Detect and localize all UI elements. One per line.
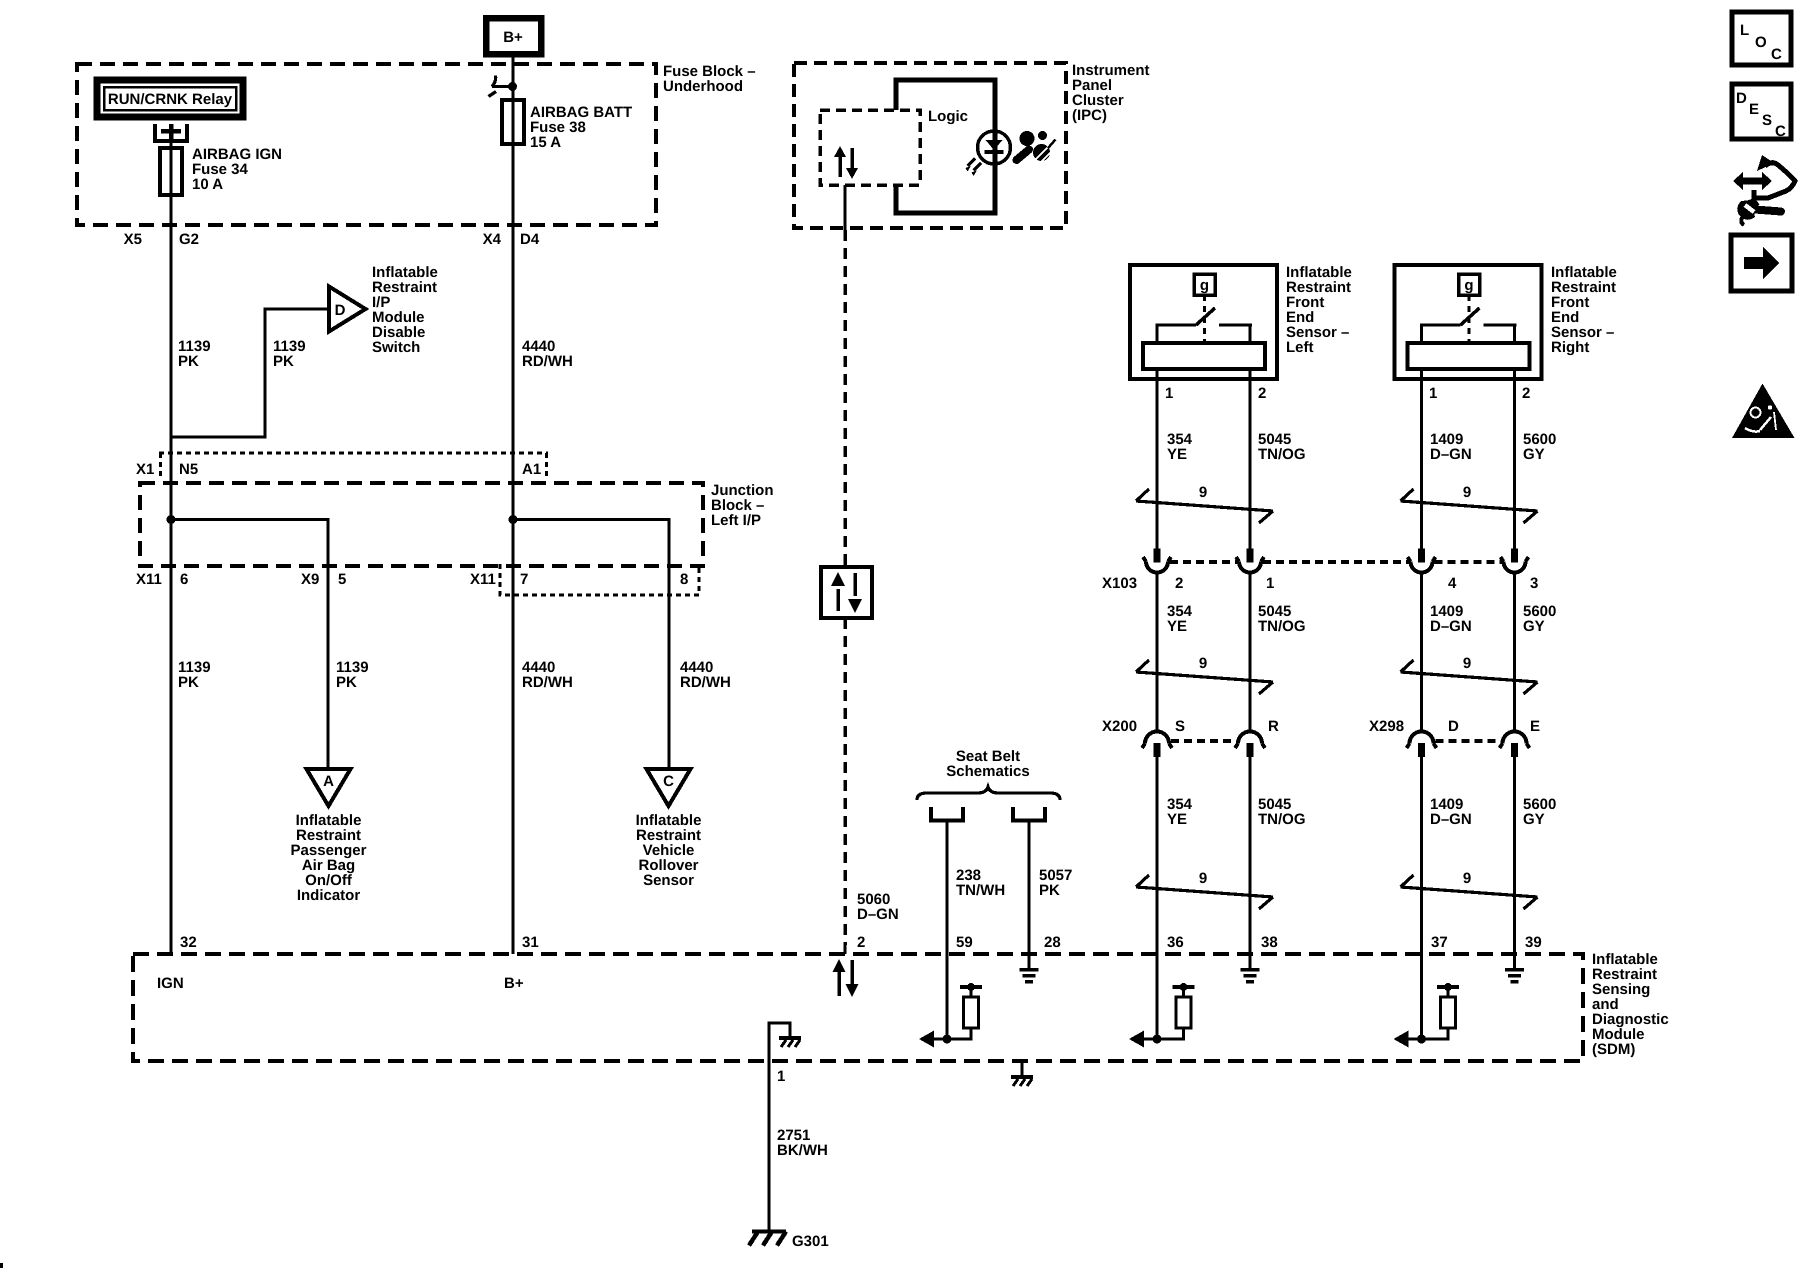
label 354 YE (upper) <box>1167 431 1193 463</box>
wire B+ to fuse 38 <box>511 54 514 144</box>
svg-text:C: C <box>1771 46 1782 63</box>
label 1409 D-GN (middle) <box>1430 603 1472 635</box>
sensor right pin labels <box>1429 385 1530 402</box>
label 1139 PK (trunk) <box>178 338 211 370</box>
svg-text:Switch: Switch <box>372 339 420 356</box>
wire 5600 GY X298 to SDM pin 39 <box>1513 757 1516 954</box>
svg-text:D: D <box>335 302 346 319</box>
label 1139 PK (branch) <box>273 338 306 370</box>
svg-text:X9: X9 <box>301 571 319 588</box>
label 5600 GY (upper) <box>1523 431 1556 463</box>
svg-text:Logic: Logic <box>928 108 968 125</box>
svg-text:TN/WH: TN/WH <box>956 882 1005 899</box>
svg-text:7: 7 <box>520 571 528 588</box>
svg-text:D–GN: D–GN <box>1430 446 1472 463</box>
label 1409 D-GN (upper) <box>1430 431 1472 463</box>
svg-text:2: 2 <box>1175 575 1183 592</box>
connector X5 pin G2 <box>124 231 199 248</box>
svg-text:X11: X11 <box>470 571 496 588</box>
svg-text:6: 6 <box>180 571 188 588</box>
page margin mark <box>0 1263 3 1268</box>
svg-text:9: 9 <box>1199 870 1207 887</box>
label 5045 TN/OG (upper) <box>1258 431 1306 463</box>
label 5045 TN/OG (lower) <box>1258 796 1306 828</box>
svg-text:L: L <box>1740 22 1749 39</box>
svg-text:8: 8 <box>680 571 688 588</box>
serial data in-line box with arrows <box>821 567 872 618</box>
SDM pin 1 label <box>777 1068 785 1085</box>
svg-text:(IPC): (IPC) <box>1072 107 1107 124</box>
svg-text:9: 9 <box>1463 484 1471 501</box>
SDM pin labels top row <box>180 934 1542 951</box>
svg-text:N5: N5 <box>179 461 198 478</box>
svg-text:PK: PK <box>336 674 357 691</box>
svg-text:1: 1 <box>1266 575 1274 592</box>
svg-text:9: 9 <box>1463 655 1471 672</box>
label 1139 PK (pin6 run) <box>178 659 211 691</box>
wire 1139 PK to passenger airbag indicator <box>326 566 329 769</box>
icon LOC box <box>1732 12 1791 65</box>
svg-text:S: S <box>1762 112 1772 129</box>
svg-text:X103: X103 <box>1102 575 1137 592</box>
svg-text:Schematics: Schematics <box>946 763 1029 780</box>
wire 5045 TN/OG sensor left pin2 to X103 <box>1248 369 1251 549</box>
label 1139 PK (X9 run) <box>336 659 369 691</box>
wire serial data IPC to SDM pin 2 <box>843 185 846 954</box>
svg-text:X11: X11 <box>136 571 162 588</box>
front end sensor left <box>1130 264 1352 379</box>
svg-text:TN/OG: TN/OG <box>1258 618 1306 635</box>
svg-text:Underhood: Underhood <box>663 78 743 95</box>
svg-text:X200: X200 <box>1102 718 1137 735</box>
svg-text:32: 32 <box>180 934 197 951</box>
svg-text:Left I/P: Left I/P <box>711 512 761 529</box>
off-page triangle C : vehicle rollover sensor <box>636 769 702 889</box>
wire 4440 RD/WH to rollover sensor <box>667 566 670 769</box>
svg-text:15 A: 15 A <box>530 134 561 151</box>
svg-text:B+: B+ <box>503 29 523 46</box>
wire 238 TN/WH to SDM pin 59 <box>945 823 948 955</box>
svg-text:E: E <box>1749 101 1759 118</box>
svg-text:A: A <box>323 773 334 790</box>
wire 1409 D-GN X298 to SDM pin 37 <box>1420 757 1423 954</box>
svg-text:59: 59 <box>956 934 973 951</box>
svg-text:GY: GY <box>1523 618 1545 635</box>
svg-text:X5: X5 <box>124 231 142 248</box>
svg-text:C: C <box>1775 123 1786 140</box>
wire 5045 TN/OG X103 to X200 <box>1248 573 1251 730</box>
label 4440 RD/WH (pin8 run) <box>680 659 731 691</box>
svg-text:G301: G301 <box>792 1233 829 1250</box>
svg-text:D–GN: D–GN <box>857 906 899 923</box>
junction node (4440 RD/WH splice) <box>509 515 670 566</box>
junction node (1139 PK splice) <box>167 515 329 566</box>
SDM internal chassis ground at pin 1 <box>769 1023 801 1061</box>
svg-text:PK: PK <box>1039 882 1060 899</box>
svg-text:YE: YE <box>1167 811 1187 828</box>
svg-text:(SDM): (SDM) <box>1592 1041 1635 1058</box>
svg-text:28: 28 <box>1044 934 1061 951</box>
svg-text:TN/OG: TN/OG <box>1258 446 1306 463</box>
svg-text:C: C <box>663 773 674 790</box>
wire 5600 GY sensor right pin2 to X103 <box>1513 369 1516 549</box>
label 4440 RD/WH (pin31 run) <box>522 659 573 691</box>
relay output bus bar <box>155 124 187 141</box>
airbag warning icon <box>1017 131 1056 163</box>
svg-text:9: 9 <box>1199 655 1207 672</box>
instrument panel cluster IPC box <box>794 62 1150 228</box>
off-page triangle A : passenger air bag on/off indicator <box>291 769 367 904</box>
icon DESC box <box>1732 84 1791 140</box>
svg-text:D: D <box>1448 718 1459 735</box>
label 5045 TN/OG (middle) <box>1258 603 1306 635</box>
connector X11 pin 6 / X9 pin 5 labels <box>136 571 346 588</box>
connector X11 pins 7 8 dotted box <box>470 564 699 595</box>
svg-text:RD/WH: RD/WH <box>522 353 573 370</box>
svg-text:g: g <box>1200 277 1209 294</box>
label 5600 GY (middle) <box>1523 603 1556 635</box>
svg-text:X1: X1 <box>136 461 154 478</box>
svg-text:YE: YE <box>1167 446 1187 463</box>
wire branch to disable switch <box>171 309 329 437</box>
svg-text:PK: PK <box>178 353 199 370</box>
label 238 TN/WH <box>956 867 1005 899</box>
wire 5600 GY X103 to X298 <box>1513 573 1516 730</box>
twisted pair symbol 9 (right upper) <box>1401 484 1538 523</box>
SDM case chassis ground on bottom edge <box>1011 1061 1033 1086</box>
svg-text:36: 36 <box>1167 934 1184 951</box>
fuse F34 AIRBAG IGN 10A <box>160 146 282 195</box>
svg-text:YE: YE <box>1167 618 1187 635</box>
wire 5057 PK to SDM pin 28 <box>1027 823 1030 955</box>
svg-text:D4: D4 <box>520 231 540 248</box>
svg-text:3: 3 <box>1530 575 1538 592</box>
LED airbag indicator lamp <box>966 131 1011 176</box>
wire 354 YE sensor left pin1 to X103 <box>1155 369 1158 549</box>
connector X4 pin D4 <box>483 231 540 248</box>
svg-text:9: 9 <box>1463 870 1471 887</box>
junction block left I/P box <box>140 482 774 566</box>
wire 1409 D-GN sensor right pin1 to X103 <box>1420 369 1423 549</box>
svg-text:1: 1 <box>1165 385 1173 402</box>
svg-text:Left: Left <box>1286 339 1314 356</box>
wire 354 YE X200 to SDM pin 36 <box>1155 757 1158 954</box>
svg-text:GY: GY <box>1523 811 1545 828</box>
svg-text:GY: GY <box>1523 446 1545 463</box>
svg-text:R: R <box>1268 718 1279 735</box>
label 354 YE (middle) <box>1167 603 1193 635</box>
svg-text:E: E <box>1530 718 1540 735</box>
svg-text:D–GN: D–GN <box>1430 618 1472 635</box>
svg-text:2: 2 <box>1258 385 1266 402</box>
svg-text:38: 38 <box>1261 934 1278 951</box>
icon airbag warning triangle <box>1732 384 1795 439</box>
svg-text:RD/WH: RD/WH <box>680 674 731 691</box>
label 354 YE (lower) <box>1167 796 1193 828</box>
label 4440 RD/WH (upper) <box>522 338 573 370</box>
IPC serial data arrows <box>834 146 858 179</box>
svg-text:A1: A1 <box>522 461 541 478</box>
relay K RUN/CRNK Relay <box>97 80 243 117</box>
fuse F38 AIRBAG BATT 15A <box>502 100 632 151</box>
svg-text:1: 1 <box>777 1068 785 1085</box>
wire 5045 TN/OG X200 to SDM pin 38 <box>1248 757 1251 954</box>
off-page triangle D : I/P module disable switch <box>329 264 438 356</box>
svg-text:Right: Right <box>1551 339 1589 356</box>
connector X200 <box>1102 718 1279 757</box>
connector X1 pins N5 A1 <box>136 453 548 478</box>
svg-text:S: S <box>1175 718 1185 735</box>
sensor left pin labels <box>1165 385 1266 402</box>
icon diagnostic arrows and wrench <box>1733 155 1795 225</box>
icon forward arrow box <box>1731 235 1792 291</box>
svg-text:5: 5 <box>338 571 346 588</box>
svg-text:G2: G2 <box>179 231 199 248</box>
seat belt connector half-box (right) <box>1013 807 1045 821</box>
svg-text:IGN: IGN <box>157 975 184 992</box>
svg-text:g: g <box>1464 277 1473 294</box>
connector X103 <box>1102 549 1538 593</box>
svg-text:39: 39 <box>1525 934 1542 951</box>
svg-text:X298: X298 <box>1369 718 1404 735</box>
wire 4440 RD/WH fuse38 to SDM pin 31 <box>511 144 514 954</box>
twisted pair symbol 9 (right lower) <box>1401 870 1538 909</box>
svg-text:D: D <box>1736 90 1747 107</box>
IPC logic block <box>896 80 995 213</box>
wire 1139 PK fuse34 to SDM pin 32 <box>169 140 172 954</box>
svg-text:2: 2 <box>857 934 865 951</box>
IPC serial data interface dashed box <box>820 110 920 185</box>
svg-text:PK: PK <box>273 353 294 370</box>
svg-text:31: 31 <box>522 934 539 951</box>
SDM internal ground pin 39 <box>1505 954 1524 982</box>
SDM internal ground pin 28 <box>1020 954 1039 982</box>
svg-text:D–GN: D–GN <box>1430 811 1472 828</box>
SDM internal input pin 37 <box>1394 954 1460 1048</box>
svg-text:O: O <box>1755 34 1767 51</box>
svg-text:PK: PK <box>178 674 199 691</box>
seat belt connector half-box (left) <box>931 807 963 821</box>
SDM pin function labels <box>157 975 524 992</box>
SDM internal input pin 36 <box>1129 954 1195 1048</box>
SDM serial data arrows at pin 2 <box>833 959 859 997</box>
twisted pair symbol 9 (left lower) <box>1136 870 1273 909</box>
twisted pair symbol 9 (left middle) <box>1136 655 1273 694</box>
svg-text:1: 1 <box>1429 385 1437 402</box>
svg-text:37: 37 <box>1431 934 1448 951</box>
svg-text:BK/WH: BK/WH <box>777 1142 828 1159</box>
fuse block underhood box <box>77 63 756 225</box>
label 5057 PK <box>1039 867 1072 899</box>
terminal clip at fuse 38 <box>489 76 518 97</box>
label 5600 GY (lower) <box>1523 796 1556 828</box>
svg-text:TN/OG: TN/OG <box>1258 811 1306 828</box>
svg-text:4: 4 <box>1448 575 1457 592</box>
front end sensor right <box>1395 264 1617 379</box>
label 2751 BK/WH <box>777 1127 828 1159</box>
wire 2751 BK/WH to G301 <box>767 1061 770 1231</box>
SDM internal input pin 59 <box>919 954 982 1048</box>
svg-text:RD/WH: RD/WH <box>522 674 573 691</box>
svg-text:10 A: 10 A <box>192 176 223 193</box>
svg-text:9: 9 <box>1199 484 1207 501</box>
svg-text:B+: B+ <box>504 975 524 992</box>
label 1409 D-GN (lower) <box>1430 796 1472 828</box>
svg-text:X4: X4 <box>483 231 502 248</box>
seat belt schematics reference <box>917 748 1060 800</box>
SDM box (inflatable restraint sensing and diagnostic module) <box>133 951 1669 1061</box>
ground G301 <box>749 1232 829 1251</box>
svg-text:Sensor: Sensor <box>643 872 694 889</box>
svg-text:2: 2 <box>1522 385 1530 402</box>
wire 354 YE X103 to X200 <box>1155 573 1158 730</box>
connector X298 <box>1369 718 1540 757</box>
svg-text:Indicator: Indicator <box>297 887 361 904</box>
label 5060 D-GN <box>857 891 899 923</box>
power terminal B+ <box>486 18 541 54</box>
twisted pair symbol 9 (left upper) <box>1136 484 1273 523</box>
twisted pair symbol 9 (right middle) <box>1401 655 1538 694</box>
wire 1409 D-GN X103 to X298 <box>1420 573 1423 730</box>
svg-text:RUN/CRNK Relay: RUN/CRNK Relay <box>108 91 233 108</box>
SDM internal ground pin 38 <box>1241 954 1260 982</box>
